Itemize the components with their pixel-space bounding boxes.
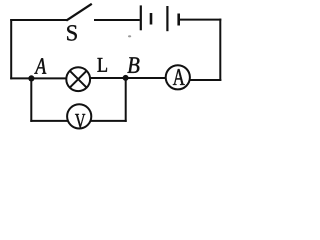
battery cell 2 short plate bbox=[177, 14, 180, 26]
wire: battery to top-right corner bbox=[180, 19, 222, 21]
node A label bbox=[34, 58, 46, 73]
wire: bottom left horizontal bbox=[30, 120, 68, 122]
lamp X stroke 1 bbox=[70, 71, 87, 88]
wire: top-left horizontal to switch bbox=[10, 19, 67, 21]
lamp label L bbox=[97, 58, 107, 72]
lamp X stroke 2 bbox=[70, 71, 87, 88]
wire: middle row lamp to ammeter (through B) bbox=[90, 77, 166, 79]
wire: middle row left (to lamp) bbox=[10, 77, 66, 79]
wire: node A vertical drop bbox=[30, 78, 32, 122]
battery cell 1 short plate bbox=[150, 13, 153, 25]
wire: right vertical bbox=[219, 19, 221, 81]
wire: ammeter to right vertical bbox=[190, 79, 222, 81]
voltmeter V circle bbox=[67, 104, 91, 128]
wire: left vertical bbox=[10, 19, 12, 79]
scan speckle bbox=[128, 35, 131, 37]
switch S blade bbox=[66, 4, 92, 21]
switch label S bbox=[67, 25, 77, 40]
battery cell 2 long plate bbox=[166, 6, 168, 31]
node B junction dot bbox=[123, 75, 129, 81]
ammeter A1 circle bbox=[166, 65, 190, 89]
switch S right contact wire bbox=[94, 19, 140, 21]
wire: node B vertical drop bbox=[125, 78, 127, 122]
node B label bbox=[127, 57, 139, 73]
lamp L circle bbox=[66, 67, 90, 91]
voltmeter letter V bbox=[75, 114, 85, 128]
ammeter letter A bbox=[173, 69, 185, 85]
wire: bottom right horizontal bbox=[91, 120, 127, 122]
node A junction dot bbox=[28, 75, 34, 81]
battery cell 1 long plate bbox=[140, 5, 142, 30]
